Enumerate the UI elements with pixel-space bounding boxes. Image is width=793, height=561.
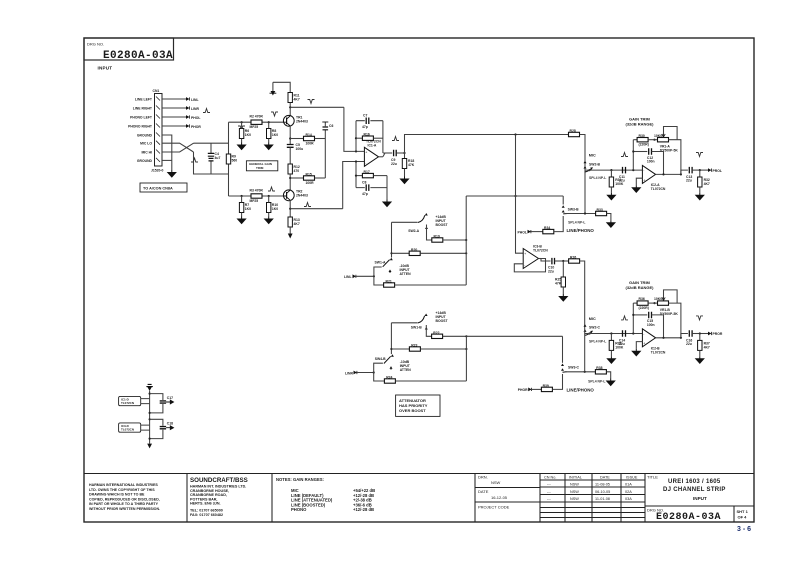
svg-text:BOOST: BOOST bbox=[436, 223, 449, 227]
node O/P PROR bbox=[708, 332, 723, 337]
svg-text:R16: R16 bbox=[364, 133, 370, 137]
wire line/phono common lower bbox=[565, 371, 596, 373]
svg-text:SOUNDCRAFT/BSS: SOUNDCRAFT/BSS bbox=[190, 477, 248, 484]
resistor R31 to ground bbox=[609, 170, 624, 193]
bottom band top rule bbox=[84, 473, 754, 475]
svg-text:SHT 1: SHT 1 bbox=[737, 509, 749, 514]
svg-text:R2 470R: R2 470R bbox=[250, 115, 264, 119]
svg-text:PROJECT CODE: PROJECT CODE bbox=[478, 505, 510, 510]
label box IC1-D spare bbox=[119, 396, 141, 405]
svg-text:LINR: LINR bbox=[345, 372, 353, 376]
svg-text:4K7: 4K7 bbox=[704, 182, 710, 186]
resistor R5 560R bbox=[226, 154, 237, 164]
svg-text:IN PART OR WHOLE TO A THIRD PA: IN PART OR WHOLE TO A THIRD PARTY bbox=[89, 502, 159, 506]
ground R8 bbox=[238, 217, 246, 224]
junction boost bus bbox=[465, 239, 467, 241]
svg-text:IC1-A: IC1-A bbox=[368, 144, 377, 148]
svg-text:R39: R39 bbox=[543, 384, 549, 388]
svg-text:1K0: 1K0 bbox=[272, 133, 278, 137]
node PHOR bbox=[186, 124, 201, 129]
junction emitter tap bottom bbox=[289, 177, 291, 179]
wire pin5 ground bbox=[162, 135, 172, 170]
capacitor C17 decoupling loop bbox=[150, 394, 174, 413]
svg-text:+: + bbox=[524, 252, 526, 256]
junction out a lower bbox=[662, 337, 664, 339]
wire SW2-A to boost resistor bbox=[427, 225, 432, 241]
resistor R15 feedback bbox=[304, 173, 315, 185]
svg-text:INITIAL: INITIAL bbox=[569, 476, 582, 480]
svg-text:3 - 6: 3 - 6 bbox=[737, 526, 751, 533]
wire phono to switch lower bbox=[552, 374, 562, 389]
svg-text:11-08-05: 11-08-05 bbox=[595, 483, 610, 487]
waveform mark top rail bbox=[271, 112, 278, 116]
page border frame bbox=[84, 38, 754, 522]
wire MIC LO crossover bbox=[162, 143, 194, 152]
wire R20 to bus bbox=[420, 252, 466, 254]
svg-text:R30: R30 bbox=[639, 134, 645, 138]
notes block bbox=[276, 477, 375, 512]
capacitor C15 fb bbox=[633, 312, 663, 338]
wire R15 to vert bbox=[315, 177, 326, 179]
wire boost to bus bbox=[443, 239, 466, 241]
svg-text:SPL4 NP-L: SPL4 NP-L bbox=[589, 176, 606, 180]
soundcraft address block bbox=[190, 477, 248, 517]
node O/P PROL bbox=[708, 168, 722, 173]
connector CN1 body bbox=[151, 89, 164, 173]
waveform mark collector bbox=[308, 100, 315, 104]
wire mic cold down bbox=[194, 152, 229, 174]
resistor R33 bbox=[596, 208, 607, 216]
wire mid resistor line bbox=[392, 252, 410, 254]
svg-text:R28: R28 bbox=[570, 129, 576, 133]
wire top supply bbox=[273, 82, 290, 92]
capacitor C8 fb low bbox=[356, 180, 387, 196]
ground R9 bbox=[265, 217, 273, 224]
wire box2 pins bbox=[141, 425, 150, 430]
svg-text:R23: R23 bbox=[411, 344, 417, 348]
capacitor C9 output bbox=[391, 150, 405, 166]
resistor R6 bias bbox=[239, 122, 251, 142]
wire LINR in bbox=[357, 372, 374, 374]
svg-text:UREI 1603 / 1605: UREI 1603 / 1605 bbox=[668, 479, 721, 485]
svg-text:16-12-05: 16-12-05 bbox=[491, 495, 508, 500]
resistor R37 out load bbox=[698, 334, 710, 357]
resistor R12 emitter bbox=[288, 164, 300, 174]
svg-text:HERTS. EN6 3JN.: HERTS. EN6 3JN. bbox=[190, 502, 221, 506]
svg-text:R36: R36 bbox=[639, 297, 645, 301]
wire pin3 PHOL bbox=[162, 116, 186, 118]
wire mic input bus vertical bbox=[228, 122, 230, 196]
svg-text:47K: 47K bbox=[555, 282, 562, 286]
wire IC2-B output bbox=[656, 337, 681, 339]
svg-text:C18: C18 bbox=[167, 422, 173, 426]
wire noninv input to ground bbox=[636, 178, 642, 185]
wire out step up lower bbox=[681, 334, 688, 338]
divider notes/drn bbox=[474, 474, 476, 523]
junction fb r-pot bbox=[653, 139, 655, 141]
svg-text:PROR: PROR bbox=[713, 332, 723, 336]
wire PHOR in bbox=[532, 388, 542, 390]
wire atten to bus2 bbox=[395, 380, 466, 382]
svg-text:INPUT: INPUT bbox=[693, 496, 707, 501]
ground R6 bbox=[238, 143, 246, 150]
node PHOR input bbox=[518, 388, 532, 393]
ground R31 bbox=[607, 193, 615, 200]
svg-text:---: --- bbox=[547, 497, 552, 501]
wire TR1 emitter chain bbox=[289, 126, 291, 144]
svg-text:06-10-05: 06-10-05 bbox=[595, 490, 610, 494]
svg-text:MF25: MF25 bbox=[250, 125, 259, 129]
svg-text:R34: R34 bbox=[544, 226, 550, 230]
wire gain set vertical bbox=[324, 130, 326, 178]
capacitor C18 decoupling loop bbox=[150, 419, 174, 438]
wire SW1-A common vertical bbox=[391, 222, 393, 257]
svg-text:C7: C7 bbox=[363, 114, 367, 118]
wire pin8 ground tie bbox=[162, 159, 172, 161]
svg-text:R20: R20 bbox=[411, 248, 417, 252]
svg-text:SW2-B: SW2-B bbox=[589, 162, 600, 166]
svg-text:01A: 01A bbox=[625, 483, 632, 487]
wire mid resistor line2 bbox=[391, 348, 409, 350]
resistor R8 bias bbox=[239, 196, 251, 217]
op-amp IC2-B bbox=[642, 329, 666, 355]
svg-text:E0280A-03A: E0280A-03A bbox=[656, 512, 721, 523]
svg-text:TL072CN: TL072CN bbox=[651, 350, 666, 354]
svg-text:GROUND: GROUND bbox=[137, 134, 153, 138]
op-amp IC1-A bbox=[364, 140, 381, 167]
ground R18 bbox=[401, 177, 409, 184]
svg-text:TL072CN: TL072CN bbox=[121, 401, 134, 405]
wire SW4-B common vertical bbox=[390, 323, 392, 354]
switch SW1-A bbox=[375, 258, 393, 273]
connector pin name labels bbox=[128, 98, 153, 163]
node LINR bbox=[186, 106, 199, 111]
svg-text:4K7: 4K7 bbox=[704, 345, 710, 349]
svg-text:+: + bbox=[643, 342, 645, 346]
switch SW3-C line/phono bbox=[561, 336, 579, 372]
wire fb top vertical bbox=[355, 121, 357, 152]
svg-text:DRN.: DRN. bbox=[478, 475, 488, 480]
junction out b lower bbox=[680, 337, 682, 339]
wire pin2 LINR bbox=[162, 107, 186, 109]
capacitor C13 output bbox=[686, 167, 708, 183]
svg-text:C6: C6 bbox=[329, 124, 333, 128]
wire pot to out vertical lower bbox=[669, 303, 681, 338]
junction out c lower bbox=[699, 332, 701, 334]
svg-text:CN No.: CN No. bbox=[544, 476, 556, 480]
svg-text:INPUT: INPUT bbox=[98, 65, 113, 70]
waveform mark bottom rail bbox=[268, 187, 275, 191]
svg-text:SW1-A: SW1-A bbox=[375, 261, 386, 265]
junction series bus2 bbox=[465, 348, 467, 350]
resistor R28 mic bus series bbox=[569, 129, 580, 137]
junction bottom bias b bbox=[268, 195, 270, 197]
junction fb cap tap bbox=[632, 150, 634, 152]
junction output node bbox=[403, 152, 405, 154]
wire IC3-B output bbox=[539, 258, 542, 260]
svg-text:MF25: MF25 bbox=[250, 199, 259, 203]
op-amp IC3-B bbox=[523, 245, 548, 269]
junction main line left lower bbox=[588, 332, 590, 334]
junction series bus bbox=[465, 252, 467, 254]
junction LINR bbox=[373, 371, 375, 373]
svg-text:470: 470 bbox=[294, 169, 300, 173]
divider copyright/soundcraft bbox=[186, 474, 188, 523]
svg-text:SW2-A: SW2-A bbox=[408, 229, 419, 233]
svg-text:BOOST: BOOST bbox=[436, 319, 449, 323]
switch SW4-B bbox=[375, 354, 394, 369]
svg-text:NSW: NSW bbox=[491, 480, 501, 485]
wire line/phono common bbox=[566, 213, 596, 215]
wire IC3-B input branch bbox=[516, 135, 524, 254]
svg-text:DJ CHANNEL STRIP: DJ CHANNEL STRIP bbox=[663, 487, 726, 493]
wire IC1-A output bbox=[379, 156, 383, 158]
wire out step up bbox=[681, 170, 688, 174]
label boost bbox=[436, 215, 449, 227]
wire mic column stub bbox=[584, 331, 586, 372]
svg-text:SPL4 NP-L: SPL4 NP-L bbox=[568, 220, 585, 224]
svg-text:47p: 47p bbox=[362, 192, 368, 196]
junction mid tap bbox=[390, 252, 392, 254]
svg-text:NOTES: GAIN RANGES:: NOTES: GAIN RANGES: bbox=[276, 477, 324, 482]
wire atten to bus bbox=[395, 284, 467, 286]
junction fb tap bbox=[632, 169, 634, 171]
capacitor C12 fb bbox=[633, 148, 663, 174]
svg-text:MIC HI: MIC HI bbox=[141, 151, 152, 155]
resistor R21 atten bbox=[384, 280, 395, 288]
transistor TR2 bbox=[283, 190, 308, 201]
svg-text:LINL: LINL bbox=[191, 98, 199, 102]
svg-text:22u: 22u bbox=[548, 270, 554, 274]
svg-text:R21: R21 bbox=[386, 280, 392, 284]
resistor R2 on top rail bbox=[250, 115, 264, 130]
svg-text:47K: 47K bbox=[408, 163, 415, 167]
wire bottom input route bbox=[343, 162, 365, 209]
junction mic bus tap bbox=[514, 133, 516, 135]
wire collector output to right bbox=[290, 106, 344, 108]
potentiometer VR1-B bbox=[654, 290, 678, 316]
capacitor C6 gain set bbox=[322, 122, 333, 130]
svg-text:ATTEN: ATTEN bbox=[400, 272, 412, 276]
junction fb top tap bbox=[355, 150, 357, 152]
ground R7 bbox=[265, 143, 273, 150]
svg-text:TITLE: TITLE bbox=[647, 475, 658, 480]
svg-text:R33: R33 bbox=[597, 208, 603, 212]
label GAIN TRIM bbox=[626, 117, 655, 127]
svg-text:SW2-C: SW2-C bbox=[589, 326, 600, 330]
svg-text:47p: 47p bbox=[362, 125, 368, 129]
svg-text:NSW: NSW bbox=[570, 490, 579, 494]
svg-text:R19: R19 bbox=[434, 235, 440, 239]
wire MIC HI crossover bbox=[162, 143, 194, 152]
wire collector2 output to right bbox=[290, 208, 343, 210]
waveform mark out lower bbox=[696, 316, 703, 320]
junction main line left bbox=[588, 169, 590, 171]
junction out a bbox=[662, 173, 664, 175]
svg-text:02A: 02A bbox=[625, 490, 632, 494]
node PHOL bbox=[186, 115, 200, 120]
svg-text:560: 560 bbox=[232, 159, 238, 163]
svg-text:1K0: 1K0 bbox=[245, 207, 251, 211]
wire to TR2 bbox=[289, 174, 291, 190]
junction fb bottom tap bbox=[355, 160, 357, 162]
junction R35 tap bbox=[610, 332, 612, 334]
svg-text:R26: R26 bbox=[570, 256, 576, 260]
wire phono to switch bbox=[554, 216, 563, 232]
wire to SW1-B bbox=[391, 322, 417, 324]
capacitor C10 output bbox=[548, 258, 563, 274]
ground R25 bbox=[559, 294, 567, 301]
waveform mark out bbox=[696, 153, 703, 157]
ground R37 bbox=[696, 356, 704, 363]
svg-text:LINR: LINR bbox=[191, 107, 199, 111]
wire pin4 PHOR bbox=[162, 125, 186, 127]
resistor R38 bbox=[595, 366, 606, 374]
wire box1 pins bbox=[141, 399, 150, 404]
wire R30 to pot bbox=[648, 139, 657, 141]
junction rail b bbox=[149, 412, 151, 414]
switch SW2-C mic select bbox=[584, 324, 601, 335]
junction out c bbox=[699, 169, 701, 171]
svg-text:100n: 100n bbox=[647, 323, 655, 327]
svg-text:MIC: MIC bbox=[589, 154, 596, 158]
resistor R34 phono bbox=[543, 226, 554, 234]
node LINL bbox=[186, 97, 199, 102]
capacitor C5 emitter bbox=[287, 143, 303, 164]
capacitor C11 main line bbox=[619, 167, 626, 183]
label box ATTENUATOR PRIORITY bbox=[396, 395, 440, 416]
wire mic hot to preamp bbox=[194, 142, 229, 144]
divider soundcraft/notes bbox=[271, 474, 273, 523]
svg-text:---: --- bbox=[547, 483, 552, 487]
junction mic column join lower bbox=[584, 371, 586, 373]
wire to SW2-A bbox=[392, 221, 418, 223]
svg-text:OF 4: OF 4 bbox=[738, 515, 748, 520]
wire SW1-B to boost resistor bbox=[426, 325, 431, 336]
wire emitter tap 2 bbox=[290, 177, 303, 179]
junction fb low bbox=[355, 175, 357, 177]
ground R32 bbox=[696, 193, 704, 200]
resistor R18 to ground bbox=[402, 153, 414, 177]
wire R23 to bus2 bbox=[420, 348, 466, 350]
junction mid tap2 bbox=[390, 348, 392, 350]
resistor R23 series bbox=[409, 344, 420, 352]
resistor R26 series out bbox=[563, 256, 579, 264]
svg-text:J1520-0: J1520-0 bbox=[151, 169, 164, 173]
switch SW2-A boost bbox=[408, 213, 428, 233]
wire boost to bus2 bbox=[443, 335, 467, 337]
svg-text:1K0: 1K0 bbox=[272, 207, 278, 211]
capacitor C16 output bbox=[686, 330, 708, 346]
label atten bbox=[400, 264, 412, 276]
waveform mark collector2 bbox=[304, 203, 311, 207]
svg-text:4K7: 4K7 bbox=[294, 98, 300, 102]
junction C10 out bbox=[562, 260, 564, 262]
junction collector node 2 bbox=[289, 208, 291, 210]
resistor R22 boost bbox=[432, 331, 443, 339]
junction LINL bbox=[373, 275, 375, 277]
svg-text:TL072CN: TL072CN bbox=[533, 249, 548, 253]
wire emitter tap resistor RA bbox=[290, 138, 303, 140]
svg-text:2N4403: 2N4403 bbox=[296, 120, 308, 124]
junction fb tap lower bbox=[632, 332, 634, 334]
resistor R17 fb low bbox=[356, 170, 387, 178]
svg-text:DRG NO.: DRG NO. bbox=[87, 42, 104, 47]
svg-text:(220R): (220R) bbox=[639, 143, 649, 147]
node PHOL input bbox=[518, 230, 531, 235]
wire mic bus to gain cell bbox=[405, 135, 569, 154]
svg-text:PHOR: PHOR bbox=[518, 388, 528, 392]
svg-text:ISSUE: ISSUE bbox=[626, 476, 638, 480]
wire top bias rail bbox=[229, 121, 284, 123]
svg-text:PHONO: PHONO bbox=[291, 507, 307, 512]
svg-text:R15: R15 bbox=[306, 173, 312, 177]
svg-text:NSW: NSW bbox=[570, 483, 579, 487]
node LINR input bbox=[345, 371, 357, 376]
svg-text:R17: R17 bbox=[364, 170, 370, 174]
wire bus vertical lower bbox=[465, 336, 467, 381]
junction top bias b bbox=[268, 121, 270, 123]
svg-text:+: + bbox=[643, 178, 645, 182]
ground noninv lower bbox=[632, 349, 640, 356]
svg-text:4K7: 4K7 bbox=[294, 222, 300, 226]
svg-text:+: + bbox=[365, 150, 367, 154]
label atten2 bbox=[400, 360, 412, 372]
label box IC3-D spare bbox=[119, 423, 141, 432]
svg-text:LINE RIGHT: LINE RIGHT bbox=[133, 107, 153, 111]
capacitor C7 fb bbox=[356, 114, 383, 130]
junction top bias a bbox=[241, 121, 243, 123]
svg-text:OVER BOOST: OVER BOOST bbox=[399, 408, 426, 413]
ground R38 bbox=[607, 379, 615, 386]
wire fb low right vertical bbox=[386, 176, 388, 200]
op-amp IC2-A bbox=[642, 165, 666, 191]
svg-text:100R: 100R bbox=[306, 141, 315, 145]
svg-text:SPL4 NP-L: SPL4 NP-L bbox=[588, 380, 605, 384]
svg-text:GROUND: GROUND bbox=[137, 159, 153, 163]
wire IC3-B out bus down bbox=[580, 261, 585, 331]
svg-text:TRIM: TRIM bbox=[256, 166, 264, 170]
potentiometer VR1-A bbox=[654, 127, 678, 153]
waveform mark near LINR bbox=[203, 109, 210, 113]
ground R33 bbox=[607, 220, 615, 227]
wire IC3-B fb loop bbox=[514, 259, 545, 272]
svg-text:C17: C17 bbox=[167, 396, 173, 400]
switch SW3-B line/phono bbox=[562, 196, 579, 214]
ground R35 bbox=[607, 356, 615, 363]
svg-text:R14: R14 bbox=[306, 133, 312, 137]
capacitor C1 mic filter bbox=[208, 143, 221, 174]
wire top input route bbox=[344, 107, 365, 151]
resistor R11 collector bbox=[288, 93, 300, 103]
resistor R9 bias bbox=[267, 196, 279, 217]
svg-text:22u: 22u bbox=[686, 342, 692, 346]
svg-text:SW1-B: SW1-B bbox=[411, 326, 422, 330]
svg-text:100u: 100u bbox=[296, 147, 304, 151]
svg-text:10K07: 10K07 bbox=[654, 134, 664, 138]
wire bottom bias rail bbox=[229, 195, 284, 197]
svg-text:LINE/PHONO: LINE/PHONO bbox=[567, 228, 595, 233]
svg-text:22u: 22u bbox=[391, 162, 397, 166]
label boost2 bbox=[436, 311, 449, 323]
resistor R25 to ground bbox=[555, 261, 566, 294]
svg-text:HARMAN INTERNATIONAL INDUSTRIE: HARMAN INTERNATIONAL INDUSTRIES bbox=[89, 483, 158, 487]
resistor R3 on bottom rail bbox=[250, 188, 264, 203]
wire line bus to SW3-B bbox=[466, 195, 563, 197]
svg-text:1K0: 1K0 bbox=[245, 133, 251, 137]
wire main line bbox=[585, 169, 642, 171]
waveform mark near mic pair bbox=[238, 126, 245, 130]
